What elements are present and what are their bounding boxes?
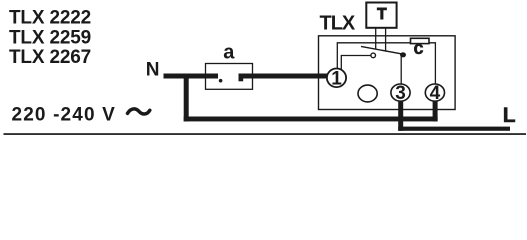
svg-text:1: 1: [331, 68, 342, 89]
switch wire from terminal 1 to pivot: [341, 56, 371, 71]
svg-text:N: N: [146, 60, 160, 81]
empty terminal ellipse: [358, 85, 377, 102]
svg-text:4: 4: [430, 83, 441, 104]
svg-text:a: a: [223, 42, 235, 64]
terminal 1: [327, 68, 346, 89]
wire N branch down: [184, 74, 189, 122]
wire N feed to switch a: [164, 74, 219, 79]
terminal 3: [391, 83, 410, 104]
svg-text:3: 3: [395, 83, 406, 104]
switch contact dot: [400, 52, 406, 57]
heater element c rectangle: [411, 38, 430, 43]
wire stub of N feed inside box a: [206, 74, 219, 79]
svg-text:L: L: [503, 104, 516, 127]
bottom rule: [4, 133, 527, 135]
svg-text:c: c: [414, 38, 424, 58]
svg-text:T: T: [377, 6, 387, 23]
internal wire terminal 1 up over to heater c: [337, 43, 410, 70]
label model list TLX 2222 / 2259 / 2267: [9, 8, 91, 68]
thermostat actuator legs: [376, 28, 386, 51]
wire terminal 3 drop to L run: [398, 100, 403, 131]
terminal 4: [425, 83, 444, 104]
wire from switch a contact to terminal 1: [239, 74, 328, 79]
switch a pivot dot: [219, 79, 223, 83]
svg-text:220 -240 V: 220 -240 V: [12, 104, 116, 125]
svg-text:TLX 2222: TLX 2222: [9, 8, 91, 29]
internal wire heater c down to terminal 4: [429, 43, 435, 85]
switch a contact foot: [239, 78, 244, 81]
wire bottom run from N branch to terminal 4: [184, 117, 438, 122]
svg-text:TLX 2267: TLX 2267: [9, 47, 91, 68]
svg-text:TLX 2259: TLX 2259: [9, 27, 91, 48]
wire terminal 4 drop: [433, 99, 438, 121]
wire contact dot down to terminal 3: [400, 55, 402, 85]
AC tilde symbol: [128, 109, 150, 114]
TLX outer box: [319, 36, 456, 110]
wire L run: [398, 127, 510, 131]
switch a box: [206, 64, 253, 90]
switch lever: [361, 46, 403, 54]
switch pivot circle: [371, 53, 376, 58]
svg-text:TLX: TLX: [320, 12, 356, 34]
thermostat box T: [366, 3, 396, 28]
